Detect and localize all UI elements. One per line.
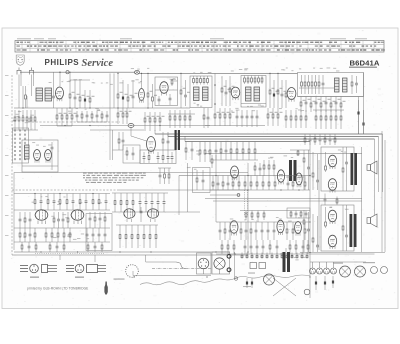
junction — [214, 103, 216, 105]
capacitor C16 — [315, 97, 321, 113]
resistor R75 — [118, 132, 120, 150]
wire — [374, 139, 376, 215]
resistor R110 — [268, 176, 270, 191]
resistor R99 — [263, 160, 265, 176]
capacitor C94 — [345, 205, 348, 251]
capacitor C33 — [171, 152, 174, 163]
wire — [310, 253, 375, 255]
wire B+ bus 1 — [155, 133, 383, 135]
resistor R143 — [51, 228, 53, 242]
switch contact — [237, 194, 240, 197]
resistor R60 — [277, 108, 282, 126]
wire — [59, 255, 61, 260]
wire — [313, 109, 344, 111]
wire — [113, 73, 115, 108]
resistor R48 — [159, 112, 164, 131]
resistor R14 — [269, 73, 274, 108]
wire — [382, 134, 384, 192]
resistor R63 — [295, 110, 297, 128]
resistor R53 — [189, 110, 191, 128]
resistor R85 — [248, 142, 250, 161]
resistor S1-4 — [203, 76, 205, 85]
resistor R115 — [300, 211, 302, 219]
capacitor C83 — [261, 222, 264, 240]
wire AVC rail — [205, 153, 362, 155]
resistor R90 — [297, 150, 299, 156]
resistor R70 — [335, 110, 337, 129]
ratio detector box — [298, 73, 364, 97]
capacitor C24 — [241, 110, 244, 127]
mixer labels — [119, 79, 141, 83]
capacitor C17 — [325, 97, 331, 113]
wire stub — [184, 136, 186, 142]
resistor R91 — [325, 152, 327, 172]
wire — [363, 97, 365, 135]
wire dial cord 2 dash-dot — [152, 268, 211, 270]
capacitor C85 — [273, 222, 276, 240]
tube V tuning B — [45, 150, 52, 163]
tube V10 output left (horizontal) — [35, 210, 48, 224]
wire mid bus — [40, 125, 210, 127]
capacitor C25 — [246, 110, 249, 127]
wire ratio box internal — [299, 87, 334, 89]
capacitor C36 — [191, 142, 194, 161]
resistor R163 — [286, 222, 288, 240]
resistor R2 — [69, 72, 74, 108]
capacitor C68 — [62, 212, 65, 228]
oscillator section box — [155, 77, 178, 106]
capacitor C67 — [57, 212, 60, 228]
output stage lower box — [321, 205, 354, 251]
resistor R32 — [26, 110, 28, 130]
capacitor C43 — [309, 134, 312, 145]
resistor R40 — [91, 111, 93, 122]
resistor R80 — [209, 142, 211, 163]
IF transformer can S2 — [241, 76, 266, 108]
resistor R172 — [307, 240, 309, 254]
capacitor C37 — [215, 142, 218, 161]
wire — [168, 113, 195, 115]
resistor R160 — [224, 222, 226, 240]
upper channel labels — [338, 150, 346, 153]
tube V15 — [277, 220, 284, 235]
wire enclosure top edge — [14, 172, 248, 174]
tube V3 IF amplifier — [231, 87, 240, 100]
resistor R173 — [303, 210, 305, 252]
resistor R159 — [155, 225, 157, 248]
wire — [130, 128, 132, 137]
resistor R118 — [257, 211, 259, 221]
wire — [132, 271, 134, 276]
wire IF mid bus — [205, 125, 265, 127]
wire stub — [154, 130, 156, 134]
capacitor C bottom3 — [332, 276, 334, 288]
resistor R171 — [295, 240, 297, 254]
capacitor C48 — [227, 176, 230, 191]
resistor S1-1 — [193, 76, 195, 85]
wire — [141, 73, 143, 88]
capacitor C bottom1 — [315, 276, 317, 290]
choke Ta — [289, 160, 297, 181]
resistor R50 — [174, 110, 176, 128]
tube V6a output upper — [328, 155, 336, 169]
capacitor C29 — [132, 147, 135, 160]
resistor R87 — [342, 147, 344, 191]
resistor R78 — [199, 142, 201, 163]
small indicator circle — [234, 277, 238, 281]
wire B+ bus 3 — [176, 138, 375, 140]
wire — [113, 149, 124, 151]
capacitor C9 — [207, 108, 210, 128]
capacitor C31 — [157, 152, 160, 163]
resistor R122 — [196, 170, 198, 190]
resistor R149 — [49, 242, 51, 252]
wire stub — [175, 134, 177, 139]
capacitor C77 — [56, 242, 59, 252]
dial pulley — [304, 289, 310, 295]
table column separators — [22, 41, 374, 53]
resistor R176 — [325, 207, 327, 228]
resistor R112 — [292, 176, 294, 191]
capacitor C20 — [86, 111, 89, 122]
wire dashed enclosure top — [12, 189, 118, 191]
bottom tiny text labels — [243, 273, 255, 288]
coil S2a — [246, 87, 252, 101]
resistor R93 — [304, 134, 306, 145]
resistor R55 — [219, 108, 224, 126]
oscillator labels — [170, 78, 178, 81]
resistor R95 — [324, 134, 326, 145]
rectifier disc G4 — [331, 262, 337, 274]
resistor R25 — [310, 97, 315, 113]
resistor R101 — [273, 160, 275, 176]
resistor R31 — [22, 110, 24, 130]
resistor R12 — [221, 76, 226, 106]
resistor R73 — [148, 152, 150, 163]
resistor R52 — [184, 110, 186, 128]
wire right inner vertical — [361, 147, 363, 252]
resistor R133 — [132, 193, 134, 212]
resistor R130 — [114, 193, 116, 212]
gang labels — [32, 142, 52, 147]
capacitor C73 — [92, 228, 95, 242]
wire — [240, 210, 310, 212]
wire — [214, 73, 216, 108]
resistor R147 — [21, 242, 23, 252]
tube V14 — [230, 221, 238, 236]
wire stub — [167, 132, 169, 137]
left cluster labels — [12, 111, 34, 123]
resistor R57 — [229, 108, 234, 126]
transistor outline T1 T2 bottom view — [30, 264, 39, 273]
wire main right vertical — [309, 142, 311, 263]
wire — [33, 75, 35, 87]
capacitor C59 — [139, 193, 142, 212]
wire — [247, 163, 249, 222]
capacitor C53 — [202, 170, 205, 190]
resistor R150 — [63, 242, 65, 252]
wire — [309, 262, 311, 298]
capacitor C39 — [345, 147, 348, 191]
resistor R17 — [301, 75, 303, 94]
labels — [68, 108, 100, 112]
keyboard unit box — [140, 150, 176, 164]
wire — [310, 261, 366, 263]
waveband switch block — [13, 128, 29, 163]
resistor S2-1 — [244, 76, 246, 85]
valve socket small D — [381, 267, 388, 274]
parts list table strip — [15, 41, 384, 53]
transistor outline drawing T3 T6 leads — [66, 266, 74, 272]
resistor R27 — [330, 97, 335, 113]
wire — [14, 193, 110, 195]
resistor R126 — [66, 194, 68, 211]
svg-text:PHILIPS: PHILIPS — [45, 58, 80, 67]
resistor R68 — [325, 110, 327, 129]
resistor R109 — [262, 176, 264, 191]
wire dial cord 1 — [146, 261, 176, 263]
resistor R9 — [171, 79, 173, 86]
socket label — [114, 279, 125, 280]
wire — [109, 130, 111, 160]
wire — [77, 121, 107, 123]
capacitor C56 — [72, 194, 75, 211]
wire — [70, 79, 90, 81]
capacitor C64 — [140, 207, 143, 222]
tube V16 — [295, 222, 302, 236]
resistor R59 — [272, 108, 277, 126]
capacitor C57 — [85, 194, 88, 211]
tube V12 (horizontal) — [124, 209, 135, 222]
resistor R77 — [185, 142, 187, 161]
capacitor C75 — [104, 228, 107, 242]
resistor R170 — [289, 240, 291, 254]
resistor R96 — [334, 134, 336, 145]
resistor R146 — [69, 228, 71, 242]
resistor R152 — [101, 242, 103, 252]
bus junction dots — [22, 72, 310, 278]
wire — [22, 86, 24, 108]
resistor R103 — [222, 176, 224, 191]
resistor R168 — [233, 240, 235, 254]
grommet ring upper — [227, 254, 231, 258]
S1 bottom labels — [194, 103, 203, 107]
aerial coil L1 — [36, 88, 43, 101]
rectifier disc G3 — [324, 262, 330, 274]
resistor R79 — [204, 142, 206, 163]
tone control sub-box — [86, 214, 112, 251]
capacitor C89 — [262, 240, 265, 254]
capacitor C27 — [256, 110, 259, 127]
capacitor C8 — [184, 80, 190, 106]
resistor R132 — [126, 193, 128, 212]
tube V4 IF amplifier 2 — [287, 88, 296, 102]
resistor R111 — [274, 176, 276, 191]
resistor R136 — [67, 212, 69, 228]
capacitor C65 — [19, 212, 22, 228]
wire — [155, 89, 178, 91]
resistor R138 — [104, 212, 106, 228]
resistor S2-2 — [247, 76, 249, 85]
wire dashed enclosure left — [11, 75, 13, 255]
valve socket small C — [371, 267, 378, 274]
resistor R24 — [300, 97, 305, 113]
resistor R56 — [224, 108, 229, 126]
svg-text:Service: Service — [82, 58, 114, 69]
resistor R51 — [179, 110, 181, 128]
tube socket B — [214, 258, 225, 274]
wire — [234, 252, 236, 277]
resistor R127 — [79, 194, 81, 211]
resistor R49 — [169, 110, 171, 128]
resistor R175 — [342, 205, 344, 251]
capacitor C45 — [329, 134, 332, 145]
resistor R113 — [304, 176, 306, 191]
wire B+ bus 4 — [185, 141, 310, 143]
resistor R98 — [254, 162, 256, 176]
capacitor C79 — [219, 222, 222, 240]
resistor R135 — [53, 212, 55, 228]
wire channel vertical — [318, 160, 320, 250]
svg-text:printed by GLB-ROHN LTD TONBR: printed by GLB-ROHN LTD TONBRIDGE — [27, 287, 88, 291]
tube V1 — [147, 137, 156, 154]
capacitor C35 — [167, 134, 170, 152]
output transformer T-low — [350, 214, 357, 247]
resistor R62 — [290, 110, 292, 128]
capacitor C18 — [335, 97, 341, 113]
resistor R104 — [232, 176, 234, 191]
rectifier disc G2 — [317, 262, 323, 274]
capacitor C81 — [245, 222, 248, 240]
rectifier disc G1 — [310, 262, 316, 274]
capacitor C63 — [163, 193, 166, 212]
resistor R144 — [57, 228, 59, 242]
wire — [213, 159, 258, 161]
tuner labels — [92, 82, 113, 85]
capacitor C84 — [267, 222, 270, 240]
ratio detector coil a — [335, 78, 340, 92]
resistor R33 — [30, 110, 32, 130]
svg-text:B6D41A: B6D41A — [350, 58, 380, 67]
capacitor C49 — [287, 176, 290, 191]
capacitor C7 — [169, 94, 172, 105]
capacitor C92 — [307, 212, 310, 252]
socket box B — [212, 252, 230, 274]
capacitor C52 — [159, 168, 162, 184]
capacitor C4 — [122, 80, 128, 108]
capacitor C69 — [89, 212, 92, 228]
capacitor C60 — [145, 193, 148, 212]
loudspeaker LS1 — [367, 161, 377, 174]
tube V2 mixer — [139, 89, 145, 103]
resistor R161 — [240, 222, 242, 240]
resistor R134 — [24, 212, 26, 228]
capacitor C47 — [217, 176, 220, 191]
IF transformer can S1 — [190, 76, 212, 108]
labels — [24, 234, 90, 240]
printer ornament — [104, 282, 107, 295]
tube socket A — [198, 258, 209, 274]
transistor outline T3 T6 side view — [87, 265, 107, 273]
labels — [187, 167, 197, 170]
wire — [178, 176, 180, 216]
resistor R19 — [308, 75, 310, 94]
capacitor C74 — [98, 228, 101, 242]
wire — [210, 194, 240, 196]
resistor R42 — [117, 108, 122, 124]
capacitor C2 — [74, 80, 80, 108]
resistor R18 — [304, 75, 306, 94]
capacitor C11 — [273, 80, 279, 108]
resistor R102 — [212, 176, 214, 191]
resistor R16 — [285, 80, 290, 108]
output transformer Tb upper — [351, 153, 358, 185]
wire — [90, 129, 144, 131]
resistor R89 — [312, 152, 314, 190]
antenna terminal A2 — [30, 68, 34, 75]
capacitor C3 — [84, 90, 90, 108]
resistor R8 — [152, 84, 157, 108]
capacitor C38 — [225, 142, 228, 161]
resistor R94 — [314, 134, 316, 145]
wire — [14, 209, 110, 211]
wire antenna bus — [20, 71, 135, 73]
wire — [187, 163, 189, 212]
lower channel labels — [329, 207, 348, 210]
wire — [298, 96, 364, 98]
wire — [94, 255, 96, 262]
wire inter-channel 1 — [205, 198, 362, 200]
capacitor C87 — [250, 240, 253, 254]
transistor outline drawing T1 T2 leads — [20, 266, 28, 272]
wire top HT bus — [140, 72, 298, 74]
capacitor C51 — [305, 211, 308, 219]
wire — [285, 248, 287, 252]
valve socket big B — [355, 266, 366, 277]
tube V7 AF amplifier — [231, 166, 239, 180]
output stage upper box — [321, 147, 354, 191]
wire — [112, 211, 200, 213]
resistor R22 — [318, 75, 320, 94]
wire — [378, 137, 380, 193]
resistor R41 — [101, 111, 103, 122]
resistor R108 — [256, 176, 258, 191]
labels — [32, 196, 102, 205]
scan noise — [5, 30, 397, 308]
capacitor C bottom0 — [246, 278, 248, 288]
S2 bottom labels — [247, 105, 264, 107]
resistor R86 — [254, 142, 256, 161]
resistor R61 — [285, 110, 287, 128]
wire AM-FM dashed shield — [28, 121, 120, 123]
wire — [59, 72, 61, 86]
S1 labels — [193, 72, 211, 73]
capacitor C42 — [324, 194, 327, 206]
resistor R47 — [154, 112, 159, 131]
socket labels — [333, 262, 375, 264]
capacitor C70 — [99, 212, 102, 228]
wire — [298, 176, 304, 178]
labels — [51, 214, 68, 218]
labels — [231, 108, 304, 112]
resistor R82 — [230, 142, 232, 161]
resistor R71 — [340, 110, 342, 129]
resistor R39 — [81, 111, 83, 122]
Philips shield emblem — [16, 55, 24, 65]
capacitor C26 — [251, 110, 254, 127]
resistor S1-3 — [200, 76, 202, 85]
transistor outline T1 T2 side view — [42, 265, 58, 273]
